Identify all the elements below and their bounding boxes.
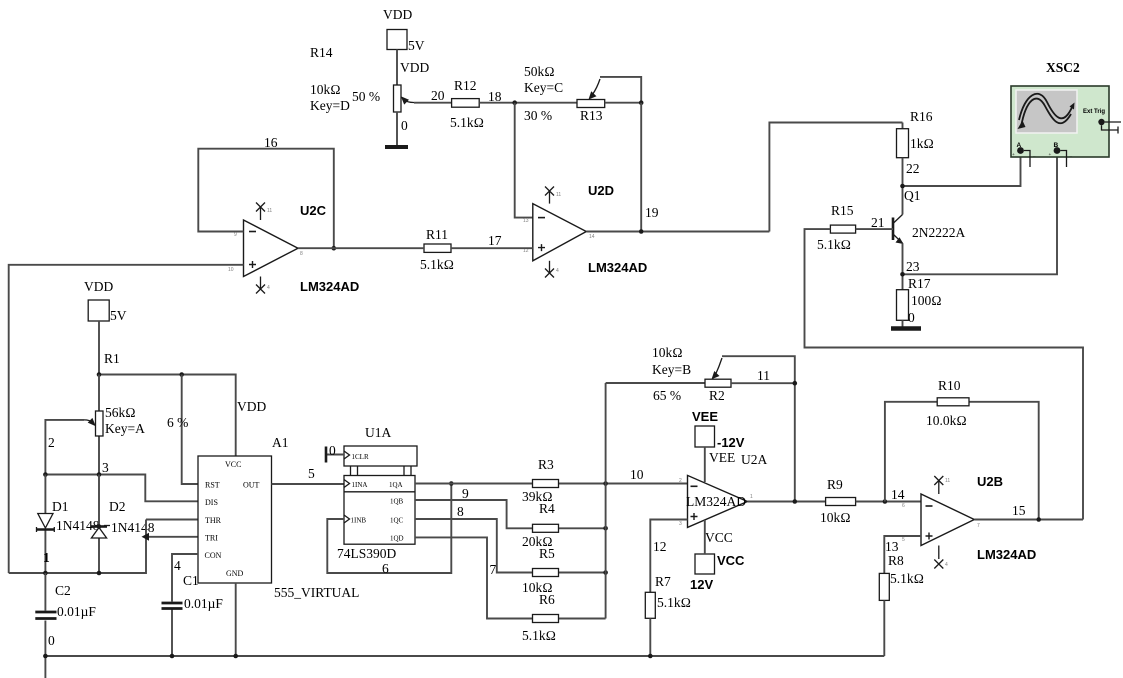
svg-text:R12: R12 bbox=[454, 78, 477, 93]
resistor R10 bbox=[926, 378, 969, 428]
resistor R6 bbox=[522, 592, 559, 643]
svg-text:U2A: U2A bbox=[741, 452, 767, 467]
svg-text:8: 8 bbox=[457, 504, 464, 519]
wire VDD to R14 bbox=[396, 50, 398, 86]
svg-text:5.1kΩ: 5.1kΩ bbox=[657, 595, 691, 610]
wire node 18 down to U2D inverting input bbox=[515, 103, 533, 218]
svg-text:0.01µF: 0.01µF bbox=[184, 596, 223, 611]
junction RST riser bbox=[179, 372, 184, 377]
svg-text:R11: R11 bbox=[426, 227, 448, 242]
junction D2 bottom bbox=[97, 571, 102, 576]
svg-text:5.1kΩ: 5.1kΩ bbox=[817, 237, 851, 252]
svg-text:Q1: Q1 bbox=[904, 188, 921, 203]
svg-text:11: 11 bbox=[945, 478, 950, 484]
svg-text:XSC2: XSC2 bbox=[1046, 60, 1080, 75]
svg-text:3: 3 bbox=[102, 460, 109, 475]
svg-text:7: 7 bbox=[977, 523, 980, 529]
junction node 23 bbox=[900, 272, 905, 277]
junction R1 top bbox=[97, 372, 102, 377]
svg-text:R10: R10 bbox=[938, 378, 961, 393]
svg-text:16: 16 bbox=[264, 135, 278, 150]
svg-text:18: 18 bbox=[488, 89, 502, 104]
svg-text:VEE: VEE bbox=[692, 409, 718, 424]
wire node 1 rail bbox=[9, 520, 146, 574]
svg-text:13: 13 bbox=[885, 539, 899, 554]
svg-text:LM324AD: LM324AD bbox=[686, 494, 746, 509]
wire node 14 (R9 to U2B - input) bbox=[856, 501, 921, 503]
svg-text:4: 4 bbox=[174, 558, 181, 573]
svg-text:10.0kΩ: 10.0kΩ bbox=[926, 413, 967, 428]
ground (under R14) bbox=[385, 145, 408, 149]
svg-text:12: 12 bbox=[653, 539, 667, 554]
svg-text:2: 2 bbox=[679, 478, 682, 484]
svg-text:THR: THR bbox=[205, 516, 222, 525]
svg-text:C1: C1 bbox=[183, 573, 199, 588]
svg-text:5V: 5V bbox=[408, 38, 425, 53]
transistor Q1 2N2222A bbox=[893, 188, 965, 244]
op-amp U2A bbox=[679, 475, 753, 527]
svg-text:VDD: VDD bbox=[237, 399, 266, 414]
svg-text:+: + bbox=[1049, 153, 1052, 158]
svg-text:OUT: OUT bbox=[243, 481, 260, 490]
svg-text:CON: CON bbox=[205, 551, 222, 560]
svg-text:10kΩ: 10kΩ bbox=[310, 82, 341, 97]
svg-text:Key=A: Key=A bbox=[105, 421, 145, 436]
svg-text:50kΩ: 50kΩ bbox=[524, 64, 555, 79]
svg-text:Key=B: Key=B bbox=[652, 362, 691, 377]
svg-text:_: _ bbox=[1032, 153, 1036, 158]
junction node3/D2 bbox=[97, 472, 102, 477]
wire 555 TRI bbox=[146, 536, 198, 538]
svg-text:1QA: 1QA bbox=[389, 481, 403, 489]
junction C1/rail bbox=[170, 654, 175, 659]
wire node 11 (R2 right, wiper loop, down to U2A out) bbox=[722, 356, 795, 501]
power VCC supply (12V) bbox=[690, 530, 745, 592]
wire 555 THR bbox=[146, 519, 198, 521]
svg-text:R7: R7 bbox=[655, 574, 671, 589]
resistor R3 bbox=[522, 457, 559, 504]
resistor R5 bbox=[522, 546, 559, 595]
svg-text:22: 22 bbox=[906, 161, 920, 176]
wire R14 to ground, net 0 bbox=[396, 112, 398, 146]
svg-text:TRI: TRI bbox=[205, 534, 218, 543]
wire VDD rail to 555 VCC bbox=[99, 375, 236, 457]
svg-text:R13: R13 bbox=[580, 108, 603, 123]
svg-text:5: 5 bbox=[902, 537, 905, 543]
svg-text:R17: R17 bbox=[908, 276, 931, 291]
svg-text:1: 1 bbox=[43, 550, 50, 565]
svg-text:1CLR: 1CLR bbox=[352, 453, 369, 461]
svg-text:R1: R1 bbox=[104, 351, 120, 366]
svg-text:1QB: 1QB bbox=[390, 498, 404, 506]
svg-text:5.1kΩ: 5.1kΩ bbox=[890, 571, 924, 586]
junction C2/rail bbox=[43, 654, 48, 659]
svg-text:VDD: VDD bbox=[84, 279, 113, 294]
capacitor C1 bbox=[162, 573, 224, 656]
svg-text:2N2222A: 2N2222A bbox=[912, 225, 965, 240]
svg-text:R6: R6 bbox=[539, 592, 555, 607]
wire node 20 (R14 wiper to R12) bbox=[414, 102, 452, 104]
svg-text:12V: 12V bbox=[690, 577, 713, 592]
wire bus top to R2 bbox=[606, 382, 705, 384]
resistor R7 bbox=[645, 574, 691, 618]
potentiometer R13 bbox=[524, 64, 605, 123]
svg-text:10kΩ: 10kΩ bbox=[652, 345, 683, 360]
diode D2 1N4148 bbox=[91, 475, 155, 574]
svg-text:50 %: 50 % bbox=[352, 89, 380, 104]
wire node 19 vertical bbox=[640, 103, 642, 232]
svg-text:1: 1 bbox=[750, 494, 753, 500]
svg-text:D2: D2 bbox=[109, 499, 126, 514]
junction node 11 bbox=[793, 381, 798, 386]
svg-text:R5: R5 bbox=[539, 546, 555, 561]
svg-text:10: 10 bbox=[630, 467, 644, 482]
wire 555 CON to C1 bbox=[172, 554, 198, 602]
svg-text:1QD: 1QD bbox=[390, 535, 404, 543]
svg-text:0: 0 bbox=[48, 633, 55, 648]
svg-text:17: 17 bbox=[488, 233, 502, 248]
svg-text:8: 8 bbox=[300, 251, 303, 257]
svg-text:C2: C2 bbox=[55, 583, 71, 598]
svg-text:11: 11 bbox=[757, 368, 770, 383]
wire node 13 (U2B + input to R8) bbox=[884, 536, 921, 573]
svg-text:VEE: VEE bbox=[709, 450, 735, 465]
svg-text:0: 0 bbox=[401, 118, 408, 133]
resistor R12 bbox=[450, 78, 484, 130]
wire node 9 (1QB row to R4) bbox=[415, 500, 606, 528]
junction R13 right bbox=[639, 100, 644, 105]
svg-text:4: 4 bbox=[267, 285, 270, 291]
resistor R15 bbox=[817, 203, 856, 252]
wire node 22 (R16 to Q1 collector and scope A) bbox=[903, 154, 1021, 215]
resistor R17 bbox=[897, 276, 942, 320]
svg-text:RST: RST bbox=[205, 481, 220, 490]
wire R10 feedback loop bbox=[885, 402, 1039, 520]
wire R13 wiper loop to node 19 bbox=[600, 77, 641, 103]
wire U2B output feedback to R15 bbox=[805, 229, 1084, 519]
junction TRI bbox=[142, 533, 150, 541]
potentiometer R1 bbox=[84, 375, 145, 475]
junction node 14 bbox=[883, 499, 888, 504]
wire node 5 (555 OUT to U1A 1INA) bbox=[272, 483, 345, 485]
svg-text:5: 5 bbox=[308, 466, 315, 481]
svg-text:LM324AD: LM324AD bbox=[977, 547, 1036, 562]
svg-text:0.01µF: 0.01µF bbox=[57, 604, 96, 619]
wire node 12 (U2A + input to R7) bbox=[650, 520, 687, 593]
svg-text:U2C: U2C bbox=[300, 203, 327, 218]
op-amp U2D bbox=[523, 183, 647, 278]
wire summing bus vertical bbox=[605, 383, 607, 619]
svg-text:R15: R15 bbox=[831, 203, 854, 218]
svg-text:R2: R2 bbox=[709, 388, 725, 403]
wire R8 to ground rail bbox=[883, 600, 885, 656]
svg-text:19: 19 bbox=[645, 205, 659, 220]
potentiometer R2 bbox=[652, 345, 731, 403]
svg-text:1N4148: 1N4148 bbox=[111, 520, 155, 535]
junction node 15 bbox=[1036, 517, 1041, 522]
svg-text:65 %: 65 % bbox=[653, 388, 681, 403]
svg-text:0: 0 bbox=[908, 310, 915, 325]
potentiometer R14 bbox=[310, 45, 414, 113]
op-amp U2C bbox=[228, 203, 359, 295]
wire VDD to R1 top rail bbox=[98, 321, 100, 375]
svg-text:23: 23 bbox=[906, 259, 920, 274]
svg-text:20: 20 bbox=[431, 88, 445, 103]
svg-text:10: 10 bbox=[228, 267, 234, 273]
wire R7 to ground rail bbox=[649, 618, 651, 656]
power VDD supply (top, for R14) bbox=[383, 7, 429, 75]
svg-text:6 %: 6 % bbox=[167, 415, 188, 430]
counter U1A 74LS390D bbox=[337, 425, 417, 561]
svg-text:R8: R8 bbox=[888, 553, 904, 568]
svg-text:11: 11 bbox=[556, 192, 561, 198]
wire node 6 feedback (1QA to 1INB) bbox=[327, 484, 451, 574]
wire node 16 feedback loop (U2C) bbox=[198, 149, 333, 249]
svg-text:5.1kΩ: 5.1kΩ bbox=[450, 115, 484, 130]
svg-text:R4: R4 bbox=[539, 501, 555, 516]
junction 555 GND/rail bbox=[233, 654, 238, 659]
junction U2D output / node 19 bbox=[639, 229, 644, 234]
svg-text:A1: A1 bbox=[272, 435, 289, 450]
oscilloscope XSC2 bbox=[1011, 60, 1121, 167]
junction node 22 bbox=[900, 184, 905, 189]
power VDD supply (for R1 / 555) bbox=[84, 279, 127, 323]
svg-text:D1: D1 bbox=[52, 499, 69, 514]
svg-text:14: 14 bbox=[589, 234, 595, 240]
svg-text:9: 9 bbox=[462, 486, 469, 501]
svg-text:LM324AD: LM324AD bbox=[300, 279, 359, 294]
svg-text:U1A: U1A bbox=[365, 425, 391, 440]
svg-text:7: 7 bbox=[490, 562, 497, 577]
wire 1QA row to R3 and node 10 to U2A bbox=[415, 483, 688, 485]
svg-text:5.1kΩ: 5.1kΩ bbox=[522, 628, 556, 643]
svg-text:VDD: VDD bbox=[400, 60, 429, 75]
wire U2B output node 15 bbox=[974, 519, 1083, 521]
wire node 7 (1QD row to R6) bbox=[415, 537, 606, 618]
resistor R8 bbox=[879, 553, 924, 600]
wire VEE to U2A bbox=[704, 447, 706, 482]
junction 1QA feedback bbox=[449, 481, 454, 486]
junction node3/D1 bbox=[43, 472, 48, 477]
junction bus/R4 bbox=[603, 526, 608, 531]
capacitor C2 bbox=[35, 573, 96, 678]
svg-text:Key=D: Key=D bbox=[310, 98, 350, 113]
resistor R9 bbox=[820, 477, 856, 525]
svg-text:74LS390D: 74LS390D bbox=[337, 546, 397, 561]
resistor R16 bbox=[897, 109, 934, 158]
svg-text:VDD: VDD bbox=[383, 7, 412, 22]
junction node 18 bbox=[512, 100, 517, 105]
svg-text:11: 11 bbox=[267, 208, 272, 214]
svg-text:GND: GND bbox=[226, 569, 244, 578]
wire node 3 (to 555 DIS) bbox=[45, 475, 198, 502]
junction D1 bottom bbox=[43, 571, 48, 576]
junction bus/1QA row bbox=[603, 481, 608, 486]
power VEE supply (-12V) bbox=[692, 409, 767, 467]
wire U2D output to R16 top bbox=[586, 123, 902, 232]
wire node 18 (R12 to R13) bbox=[479, 102, 577, 104]
wire R17 to ground, net 0 bbox=[902, 320, 904, 327]
svg-text:U2B: U2B bbox=[977, 474, 1003, 489]
svg-text:1QC: 1QC bbox=[390, 517, 404, 525]
wire node 2 (R1 wiper down the left) bbox=[45, 420, 84, 475]
svg-text:LM324AD: LM324AD bbox=[588, 260, 647, 275]
svg-text:21: 21 bbox=[871, 215, 885, 230]
wire node 8 (1QC row to R5) bbox=[415, 519, 606, 573]
svg-text:9: 9 bbox=[234, 232, 237, 238]
wire U2A output to R9 bbox=[747, 501, 825, 503]
junction U2C output bbox=[332, 246, 337, 251]
ground (under R17) bbox=[891, 326, 921, 331]
svg-text:_: _ bbox=[1069, 153, 1073, 158]
svg-text:6: 6 bbox=[902, 503, 905, 509]
svg-text:1kΩ: 1kΩ bbox=[910, 136, 934, 151]
svg-text:10kΩ: 10kΩ bbox=[820, 510, 851, 525]
svg-text:3: 3 bbox=[679, 521, 682, 527]
svg-text:R16: R16 bbox=[910, 109, 933, 124]
junction bus/R5 bbox=[603, 570, 608, 575]
svg-text:R9: R9 bbox=[827, 477, 843, 492]
svg-text:+: + bbox=[1012, 153, 1015, 158]
wire U2C output to R11 bbox=[298, 247, 424, 249]
diode D1 1N4148 bbox=[37, 475, 100, 574]
wire node 23 (Q1 emitter to R17 and scope B) bbox=[903, 154, 1058, 290]
svg-text:U2D: U2D bbox=[588, 183, 614, 198]
wire node 17 (R11 to U2D non-inverting input) bbox=[451, 247, 533, 249]
resistor R11 bbox=[420, 227, 454, 272]
timer A1 555_VIRTUAL bbox=[198, 435, 359, 600]
wire 1CLR stub, net 0 bbox=[326, 454, 344, 456]
resistor R4 bbox=[522, 501, 559, 549]
svg-text:14: 14 bbox=[891, 487, 905, 502]
svg-text:5V: 5V bbox=[110, 308, 127, 323]
svg-text:Ext Trig: Ext Trig bbox=[1083, 109, 1105, 115]
wire node 0 ground rail bbox=[45, 655, 884, 657]
wire VCC to U2A bbox=[704, 520, 706, 554]
svg-text:6: 6 bbox=[382, 561, 389, 576]
svg-text:-12V: -12V bbox=[717, 435, 745, 450]
wire node 21 (R15 to Q1 base) bbox=[856, 228, 893, 230]
svg-text:1INA: 1INA bbox=[352, 481, 368, 489]
svg-text:VCC: VCC bbox=[225, 460, 241, 469]
wire 555 GND to rail bbox=[235, 583, 237, 656]
svg-text:4: 4 bbox=[945, 562, 948, 568]
junction R7/rail bbox=[648, 654, 653, 659]
svg-text:R3: R3 bbox=[538, 457, 554, 472]
wire RST riser, 6% bbox=[182, 375, 198, 485]
junction U2A output / node 11 bbox=[793, 499, 798, 504]
svg-text:15: 15 bbox=[1012, 503, 1026, 518]
wire U2C non-inverting input from far left bbox=[9, 265, 244, 573]
svg-text:DIS: DIS bbox=[205, 498, 218, 507]
svg-text:13: 13 bbox=[523, 218, 529, 224]
op-amp U2B bbox=[902, 474, 1036, 569]
svg-text:0: 0 bbox=[329, 443, 336, 458]
svg-text:30 %: 30 % bbox=[524, 108, 552, 123]
svg-text:555_VIRTUAL: 555_VIRTUAL bbox=[274, 585, 359, 600]
svg-text:100Ω: 100Ω bbox=[911, 293, 942, 308]
svg-text:R14: R14 bbox=[310, 45, 333, 60]
svg-text:56kΩ: 56kΩ bbox=[105, 405, 136, 420]
svg-text:VCC: VCC bbox=[717, 553, 745, 568]
svg-text:1INB: 1INB bbox=[351, 517, 367, 525]
svg-text:5.1kΩ: 5.1kΩ bbox=[420, 257, 454, 272]
svg-text:2: 2 bbox=[48, 435, 55, 450]
svg-text:VCC: VCC bbox=[705, 530, 733, 545]
svg-text:4: 4 bbox=[556, 268, 559, 274]
svg-text:Key=C: Key=C bbox=[524, 80, 563, 95]
